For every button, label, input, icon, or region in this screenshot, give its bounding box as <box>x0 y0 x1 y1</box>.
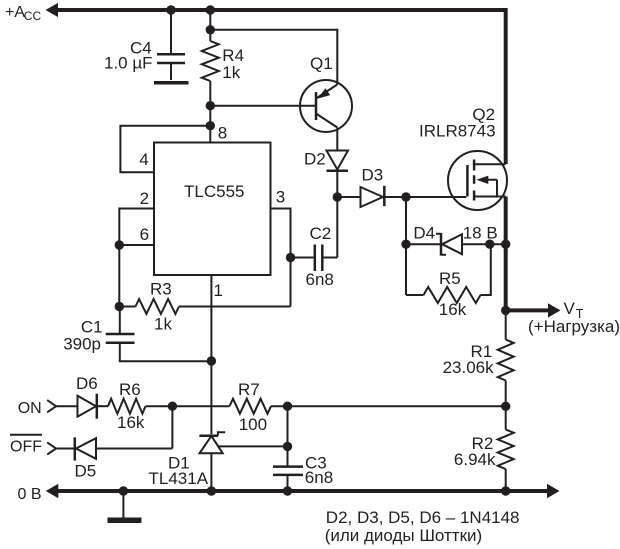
wire R3 left lead <box>119 306 135 308</box>
resistor R6 <box>108 399 146 414</box>
ground bar under C4 <box>154 81 189 85</box>
wire R7 right to divider <box>271 405 506 407</box>
transistor Q2 (N-MOSFET) <box>448 151 507 210</box>
wire R2 bottom lead <box>505 469 507 491</box>
svg-text:100: 100 <box>239 415 267 434</box>
output VT arrow <box>506 303 561 317</box>
node dot D4 right / R5 <box>485 240 494 249</box>
svg-text:(+Нагрузка): (+Нагрузка) <box>528 317 620 336</box>
diode D5 <box>75 437 173 460</box>
svg-text:V: V <box>564 299 576 318</box>
wire R5 right branch <box>481 244 491 295</box>
node dot rail/C4 <box>166 5 175 14</box>
node dot D2/D3/C2 <box>333 192 342 201</box>
capacitor C1 <box>106 307 212 362</box>
capacitor C4 <box>157 54 185 80</box>
resistor R5 <box>424 287 481 303</box>
svg-text:23.06k: 23.06k <box>443 358 495 377</box>
svg-text:6n8: 6n8 <box>305 468 333 487</box>
svg-text:18 В: 18 В <box>463 224 498 243</box>
svg-text:+A: +A <box>5 4 25 21</box>
resistor R3 <box>136 299 180 314</box>
node dot pin8 <box>206 121 215 130</box>
node dot pin2/6 tie <box>115 240 124 249</box>
node dot emitter branch <box>206 25 215 34</box>
svg-text:R6: R6 <box>119 380 141 399</box>
power rail +Acc (top, turns down right side to Q2 drain) <box>46 3 506 164</box>
wire D4 cathode lead <box>406 243 440 245</box>
svg-text:TL431A: TL431A <box>149 469 209 488</box>
svg-text:16k: 16k <box>439 300 467 319</box>
svg-text:1.0 µF: 1.0 µF <box>104 54 153 73</box>
svg-text:C1: C1 <box>81 317 103 336</box>
svg-text:C2: C2 <box>310 224 332 243</box>
node dot R3 left / C1 <box>115 302 124 311</box>
wire R4 top lead <box>209 10 211 41</box>
label +Acc <box>5 4 41 23</box>
svg-text:8: 8 <box>218 124 227 143</box>
svg-text:IRLR8743: IRLR8743 <box>419 122 496 141</box>
node dot C3/rail <box>283 486 292 495</box>
wire pin6 lead <box>119 244 154 246</box>
wire C3 branch down <box>287 406 289 446</box>
node dot R2/rail <box>501 486 510 495</box>
wire R4 bottom lead to node 8 <box>209 81 211 142</box>
wire Q1 emitter branch <box>210 30 337 85</box>
label R6 16k <box>117 380 145 432</box>
node dot pin3/C2 <box>286 253 295 262</box>
label C2 6n8 <box>306 224 334 289</box>
node dot D4 left <box>401 240 410 249</box>
IC U1 TLC555 box <box>154 143 271 276</box>
svg-text:R5: R5 <box>439 269 461 288</box>
svg-text:R3: R3 <box>150 280 172 299</box>
node dot ref/C3 <box>283 442 292 451</box>
svg-text:D4: D4 <box>413 224 435 243</box>
svg-text:3: 3 <box>276 188 285 207</box>
wire pin4 loop <box>120 126 210 173</box>
svg-text:4: 4 <box>139 150 148 169</box>
svg-text:16k: 16k <box>117 413 145 432</box>
transistor Q1 (PNP) <box>300 80 352 150</box>
svg-text:D5: D5 <box>75 461 97 480</box>
wire C4 top lead from rail <box>170 10 172 53</box>
node dot TL431 anode/rail <box>207 486 216 495</box>
svg-text:6n8: 6n8 <box>306 270 334 289</box>
wire pin3 lead <box>271 209 291 307</box>
node dot ground symbol <box>119 486 128 495</box>
svg-text:1: 1 <box>214 281 223 300</box>
label C1 390p <box>63 317 102 353</box>
wire pin2 lead <box>119 209 154 246</box>
svg-text:1k: 1k <box>154 315 172 334</box>
svg-text:2: 2 <box>140 189 149 208</box>
wire Q2 source thick line down <box>504 197 508 311</box>
wire R1 top lead <box>505 310 507 339</box>
svg-text:(или диоды Шоттки): (или диоды Шоттки) <box>325 526 482 545</box>
ground symbol <box>108 491 142 520</box>
label R1 23.06k <box>443 342 495 377</box>
svg-text:OFF: OFF <box>10 439 42 456</box>
node dot on source line <box>501 240 510 249</box>
wire R3 right lead <box>179 306 291 308</box>
label VT <box>564 299 584 321</box>
wire R5 left branch <box>406 294 424 296</box>
svg-text:R7: R7 <box>238 380 260 399</box>
resistor R2 <box>498 430 514 470</box>
node dot R7 right <box>283 402 292 411</box>
svg-text:CC: CC <box>24 9 42 23</box>
node dot VT <box>501 306 510 315</box>
node dot R6/R7/D5 <box>168 402 177 411</box>
diode D4 (zener) <box>436 233 506 256</box>
svg-text:D3: D3 <box>362 166 384 185</box>
svg-text:6: 6 <box>140 225 149 244</box>
label R2 6.94k <box>454 434 496 469</box>
input OFF <box>10 435 74 456</box>
wire R6 to junction <box>146 405 230 407</box>
diode D3 <box>361 186 407 207</box>
label D1 TL431A <box>149 453 209 488</box>
svg-text:1k: 1k <box>222 63 240 82</box>
diode D6 <box>78 394 109 419</box>
wire pins2-6 down to R3/C1 <box>118 245 120 307</box>
note diodes types <box>325 508 520 545</box>
resistor R7 <box>230 399 272 414</box>
svg-text:ON: ON <box>18 400 42 417</box>
svg-text:6.94k: 6.94k <box>454 450 496 469</box>
wire D3 anode lead <box>337 196 360 198</box>
wire D5 branch up to R6/R7 node <box>171 406 173 448</box>
svg-text:D2: D2 <box>304 150 326 169</box>
svg-text:TLC555: TLC555 <box>184 182 244 201</box>
resistor R1 <box>498 340 514 381</box>
diode D2 <box>327 151 349 198</box>
label C4 value <box>104 39 153 73</box>
input ON <box>18 400 77 417</box>
label R4 1k <box>222 46 244 82</box>
label C3 6n8 <box>305 454 333 488</box>
capacitor C2 <box>291 197 338 271</box>
shunt regulator D1 TL431A <box>199 432 287 491</box>
wire pin1 lead down <box>210 275 212 434</box>
wire R1 bottom lead <box>505 381 507 430</box>
resistor R4 <box>202 41 219 81</box>
svg-text:0 В: 0 В <box>18 486 42 503</box>
capacitor C3 <box>273 446 303 491</box>
wire gate lead <box>406 196 466 198</box>
node dot R1/R2 <box>501 402 510 411</box>
svg-text:390p: 390p <box>63 335 101 354</box>
svg-text:D2, D3, D5, D6 – 1N4148: D2, D3, D5, D6 – 1N4148 <box>326 508 520 527</box>
node dot rail/R4 <box>206 5 215 14</box>
node dot base branch <box>206 101 215 110</box>
label R7 100 <box>238 380 267 434</box>
wire gate branch down to D4/R5 <box>405 197 407 295</box>
node dot C1/pin1 <box>207 356 216 365</box>
wire Q1 base lead <box>210 105 315 107</box>
svg-text:D6: D6 <box>76 374 98 393</box>
label R3 1k <box>150 280 172 334</box>
ground rail 0V <box>46 484 560 499</box>
node dot gate junction <box>401 192 410 201</box>
label R5 16k <box>439 269 467 319</box>
svg-text:Q1: Q1 <box>310 54 333 73</box>
